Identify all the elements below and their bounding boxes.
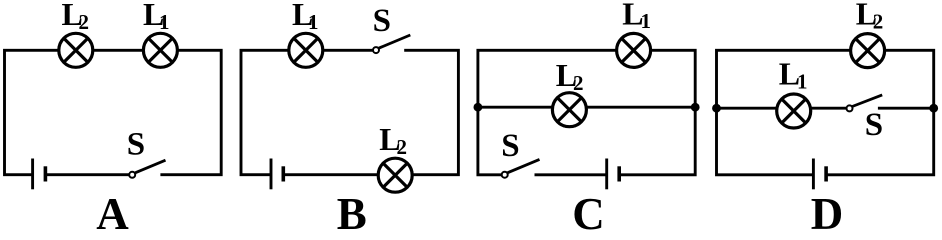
lamp L2 (circuit A) bbox=[59, 33, 93, 67]
svg-text:2: 2 bbox=[573, 71, 584, 95]
wire: D outer loop bbox=[717, 50, 934, 175]
lamp L2 (circuit D) bbox=[851, 34, 885, 68]
node: D left junction bbox=[712, 104, 721, 113]
svg-text:2: 2 bbox=[397, 135, 408, 159]
label L1 (circuit A) bbox=[143, 0, 170, 34]
label L2 (circuit D) bbox=[856, 0, 884, 33]
switch S (circuit B) bbox=[373, 35, 410, 53]
node: C right junction bbox=[691, 103, 700, 112]
label L2 (circuit B) bbox=[379, 121, 407, 159]
node: D right junction bbox=[929, 104, 938, 113]
wire gap: B switch opening bbox=[376, 46, 404, 56]
label S (circuit D) bbox=[865, 107, 883, 143]
label S (circuit A) bbox=[127, 126, 145, 162]
svg-text:D: D bbox=[811, 189, 844, 230]
lamp L1 (circuit B) bbox=[289, 33, 323, 67]
svg-text:S: S bbox=[127, 126, 145, 162]
label L1 (circuit D) bbox=[779, 56, 808, 94]
svg-text:A: A bbox=[96, 189, 129, 230]
battery B3 (circuit C) bbox=[607, 159, 620, 190]
switch S (circuit A) bbox=[129, 160, 165, 178]
wire gap: A battery opening bbox=[33, 170, 46, 180]
label L2 (circuit A) bbox=[62, 0, 90, 34]
wire gap: A switch opening bbox=[132, 170, 160, 180]
lamp L2 (circuit B) bbox=[378, 158, 412, 192]
svg-text:S: S bbox=[865, 107, 883, 143]
label C bbox=[572, 189, 605, 239]
switch S (circuit C) bbox=[502, 159, 540, 177]
battery B2 (circuit B) bbox=[271, 159, 283, 190]
svg-text:S: S bbox=[373, 3, 391, 39]
svg-text:2: 2 bbox=[873, 9, 884, 33]
svg-text:2: 2 bbox=[79, 10, 90, 34]
lamp L2 (circuit C) bbox=[552, 93, 586, 127]
svg-text:1: 1 bbox=[308, 10, 319, 34]
label B bbox=[337, 189, 367, 239]
wire gap: D switch opening bbox=[850, 104, 878, 114]
label A bbox=[96, 189, 129, 239]
battery B1 (circuit A) bbox=[33, 159, 46, 190]
label D bbox=[811, 189, 844, 239]
wire gap: C switch opening bbox=[505, 170, 535, 180]
svg-text:1: 1 bbox=[641, 9, 652, 33]
switch S (circuit D) bbox=[847, 95, 883, 112]
wire gap: C battery opening bbox=[607, 170, 620, 180]
lamp L1 (circuit A) bbox=[143, 33, 177, 67]
wire: C outer loop bbox=[478, 50, 695, 175]
label S (circuit C) bbox=[501, 128, 519, 164]
svg-text:C: C bbox=[572, 189, 605, 230]
svg-text:B: B bbox=[337, 189, 367, 230]
wire: A outer loop bbox=[5, 50, 222, 174]
node: C left junction bbox=[474, 103, 483, 112]
wire: B outer loop bbox=[241, 50, 458, 174]
label S (circuit B) bbox=[373, 3, 391, 39]
label L2 (circuit C) bbox=[556, 57, 584, 95]
battery B4 (circuit D) bbox=[813, 159, 826, 190]
lamp L1 (circuit D) bbox=[777, 94, 811, 128]
lamp L1 (circuit C) bbox=[617, 33, 651, 67]
svg-text:S: S bbox=[501, 128, 519, 164]
wire gap: B battery opening bbox=[271, 170, 283, 180]
wire: C middle branch bbox=[478, 106, 695, 109]
wire: D middle branch bbox=[717, 107, 934, 110]
label L1 (circuit C) bbox=[622, 0, 651, 33]
label L1 (circuit B) bbox=[292, 0, 319, 34]
svg-text:1: 1 bbox=[797, 70, 808, 94]
wire gap: D battery opening bbox=[813, 170, 826, 180]
svg-text:1: 1 bbox=[159, 10, 170, 34]
